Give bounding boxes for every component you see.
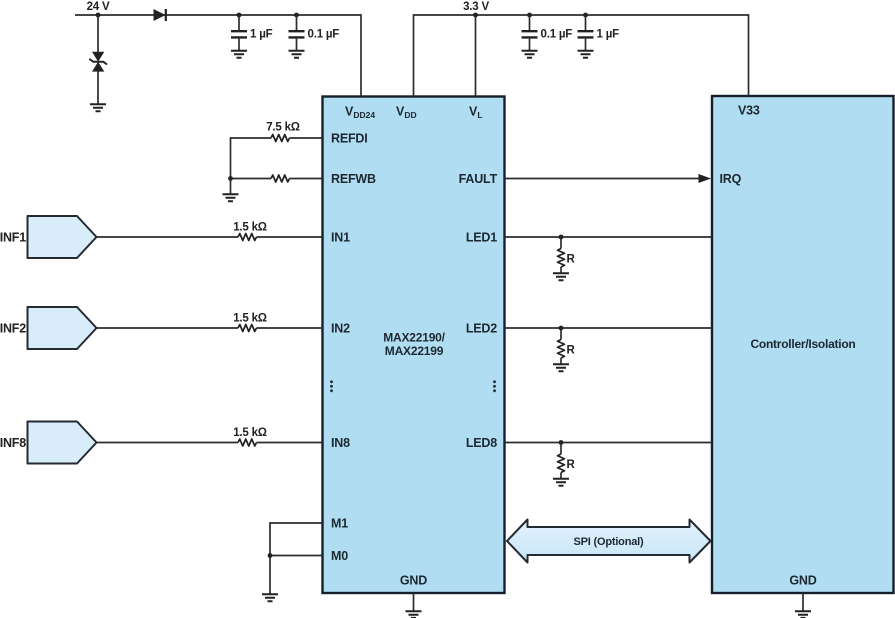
svg-text:0.1 µF: 0.1 µF (308, 29, 340, 41)
wire REFWB left segment (231, 178, 272, 180)
wire REFDI-REFWB vertical (230, 137, 232, 178)
wire 3.3V rail horizontal (414, 14, 749, 16)
input flag INF2 (28, 307, 97, 349)
node junction LED1 / R tap (559, 235, 564, 240)
IC U1 MAX22190/MAX22199 box (323, 97, 505, 594)
pin label REFWB (331, 172, 376, 186)
pin label M1 (331, 517, 348, 531)
wire LED2 to controller (505, 327, 713, 329)
resistor R LED2 (558, 340, 565, 359)
wire LED8 R top stub (560, 443, 562, 455)
node junction 24V / TVS tap (96, 13, 101, 18)
ground U2 GND (795, 611, 811, 618)
capacitor C4 1uF (578, 15, 594, 50)
wire INF8 to resistor (97, 442, 239, 444)
ground R LED2 (553, 364, 569, 371)
pin label GND U2 (789, 574, 816, 588)
svg-text:1 µF: 1 µF (250, 29, 273, 41)
svg-text:M1: M1 (331, 517, 348, 531)
pin label VDD24 (345, 105, 375, 121)
wire REFWB ground stub (230, 179, 232, 194)
input flag INF1 (28, 216, 97, 258)
wire INF1 to resistor (97, 236, 239, 238)
node junction REFWB ground tap (228, 176, 233, 181)
wire LED1 to controller (505, 236, 713, 238)
wire REFDI right segment (290, 137, 323, 139)
svg-text:M0: M0 (331, 549, 348, 563)
ground R LED8 (553, 479, 569, 486)
pin label LED1 (466, 231, 497, 245)
svg-text:INF1: INF1 (0, 231, 26, 245)
value label 1uF C4 (597, 29, 620, 41)
svg-text:LED2: LED2 (466, 322, 497, 336)
controller U2 Controller/Isolation box (712, 96, 894, 593)
pin label IN2 (331, 322, 350, 336)
node junction 0.1uF C2 (294, 13, 299, 18)
ellipsis dots left IN column (330, 380, 333, 392)
wire INF2 to resistor (97, 327, 239, 329)
svg-text:R: R (567, 254, 576, 266)
wire M0 (270, 555, 323, 557)
pin label VL (469, 105, 483, 121)
wire resistor to IN8 (257, 442, 323, 444)
svg-text:V33: V33 (738, 104, 760, 118)
wire FAULT to IRQ (505, 178, 701, 180)
ground C2 (289, 51, 305, 58)
wire LED8 R bottom stub (560, 473, 562, 479)
resistor R_REFWB (271, 175, 290, 182)
wire VDD vertical drop (413, 14, 415, 96)
svg-text:Controller/Isolation: Controller/Isolation (750, 337, 855, 351)
wire M1 (270, 522, 323, 524)
svg-text:MAX22190/: MAX22190/ (383, 331, 445, 345)
svg-text:R: R (567, 459, 576, 471)
U1 label MAX22190/MAX22199 (383, 331, 445, 359)
capacitor C1 1uF (231, 15, 247, 50)
net label INF2 (0, 322, 26, 336)
svg-text:1 µF: 1 µF (597, 29, 620, 41)
TVS zener Z1 bidirectional (90, 52, 106, 72)
value label 0.1uF C3 (541, 29, 573, 41)
wire LED8 to controller (505, 442, 713, 444)
wire resistor to IN1 (257, 236, 323, 238)
node junction 3.3V / VL (473, 13, 478, 18)
svg-text:1.5 kΩ: 1.5 kΩ (233, 427, 267, 439)
pin label GND U1 (400, 574, 427, 588)
wire LED2 R top stub (560, 328, 562, 340)
node junction 1uF C4 (583, 13, 588, 18)
svg-text:7.5 kΩ: 7.5 kΩ (266, 122, 300, 134)
wire LED2 R bottom stub (560, 358, 562, 364)
ground C1 (231, 51, 247, 58)
wire resistor to IN2 (257, 327, 323, 329)
net 24V label (87, 1, 110, 13)
wire LED1 R top stub (560, 237, 562, 249)
diode D1 series (154, 9, 166, 21)
resistor R LED8 (558, 454, 565, 473)
ground U1 GND (406, 611, 422, 618)
wire GND U1 stub (413, 593, 415, 611)
wire TVS bottom (97, 71, 99, 104)
capacitor C2 0.1uF (289, 15, 305, 50)
svg-text:LED1: LED1 (466, 231, 497, 245)
input flag INF8 (28, 422, 97, 464)
pin label IN1 (331, 231, 350, 245)
net label INF8 (0, 436, 26, 450)
value label 7.5kOhm (266, 122, 300, 134)
ellipsis dots right LED column (493, 380, 496, 392)
svg-text:INF2: INF2 (0, 322, 26, 336)
SPI bidirectional bus arrow (507, 520, 711, 563)
svg-text:FAULT: FAULT (459, 172, 498, 186)
svg-text:3.3 V: 3.3 V (463, 1, 489, 13)
value label 1uF C1 (250, 29, 273, 41)
svg-text:0.1 µF: 0.1 µF (541, 29, 573, 41)
svg-text:GND: GND (789, 574, 816, 588)
pin label LED8 (466, 436, 497, 450)
U2 label Controller/Isolation (750, 337, 855, 351)
svg-text:R: R (567, 345, 576, 357)
ground C3 (522, 51, 538, 58)
wire TVS top (97, 15, 99, 52)
bus label SPI (Optional) (574, 536, 644, 548)
wire LED1 R bottom stub (560, 267, 562, 273)
wire REFDI left segment (231, 137, 272, 139)
arrowhead IRQ (699, 174, 712, 183)
value label R LED2 (567, 345, 576, 357)
svg-text:GND: GND (400, 574, 427, 588)
value label R LED1 (567, 254, 576, 266)
svg-text:1.5 kΩ: 1.5 kΩ (233, 313, 267, 325)
pin label VDD (396, 105, 417, 121)
pin label M0 (331, 549, 348, 563)
node junction M0 tap (268, 553, 273, 558)
value label 1.5kOhm IN8 (233, 427, 267, 439)
resistor R_IN2 1.5k (238, 325, 257, 332)
wire VDD24 vertical drop (360, 14, 362, 96)
svg-text:24 V: 24 V (87, 1, 110, 13)
svg-text:REFWB: REFWB (331, 172, 376, 186)
svg-text:INF8: INF8 (0, 436, 26, 450)
resistor R_REFDI 7.5k (271, 135, 290, 142)
net 3.3V label (463, 1, 489, 13)
node junction LED8 / R tap (559, 440, 564, 445)
pin label LED2 (466, 322, 497, 336)
svg-text:IN8: IN8 (331, 436, 350, 450)
pin label IN8 (331, 436, 350, 450)
svg-text:REFDI: REFDI (331, 132, 368, 146)
wire M1-M0 vertical to ground (269, 522, 271, 594)
ground C4 (578, 51, 594, 58)
pin label FAULT (459, 172, 498, 186)
svg-text:LED8: LED8 (466, 436, 497, 450)
pin label V33 (738, 104, 760, 118)
node junction 1uF C1 (237, 13, 242, 18)
wire 24V rail horizontal (75, 14, 361, 16)
value label 1.5kOhm IN2 (233, 313, 267, 325)
ground REFWB (223, 194, 239, 201)
svg-text:IRQ: IRQ (720, 172, 742, 186)
value label R LED8 (567, 459, 576, 471)
svg-text:MAX22199: MAX22199 (385, 344, 444, 358)
ground M0 (262, 594, 278, 601)
value label 1.5kOhm IN1 (233, 222, 267, 234)
svg-text:1.5 kΩ: 1.5 kΩ (233, 222, 267, 234)
value label 0.1uF C2 (308, 29, 340, 41)
capacitor C3 0.1uF (522, 15, 538, 50)
wire REFWB right segment (290, 178, 323, 180)
ground TVS (90, 104, 106, 111)
wire GND U2 stub (802, 593, 804, 611)
pin label IRQ (720, 172, 742, 186)
svg-text:IN2: IN2 (331, 322, 350, 336)
pin label REFDI (331, 132, 368, 146)
resistor R_IN1 1.5k (238, 234, 257, 241)
wire VL vertical drop (475, 15, 477, 97)
ground R LED1 (553, 273, 569, 280)
svg-text:IN1: IN1 (331, 231, 350, 245)
resistor R LED1 (558, 249, 565, 268)
svg-text:SPI (Optional): SPI (Optional) (574, 536, 644, 548)
net label INF1 (0, 231, 26, 245)
wire V33 vertical drop (748, 14, 750, 96)
resistor R_IN8 1.5k (238, 439, 257, 446)
node junction 0.1uF C3 (527, 13, 532, 18)
node junction LED2 / R tap (559, 326, 564, 331)
